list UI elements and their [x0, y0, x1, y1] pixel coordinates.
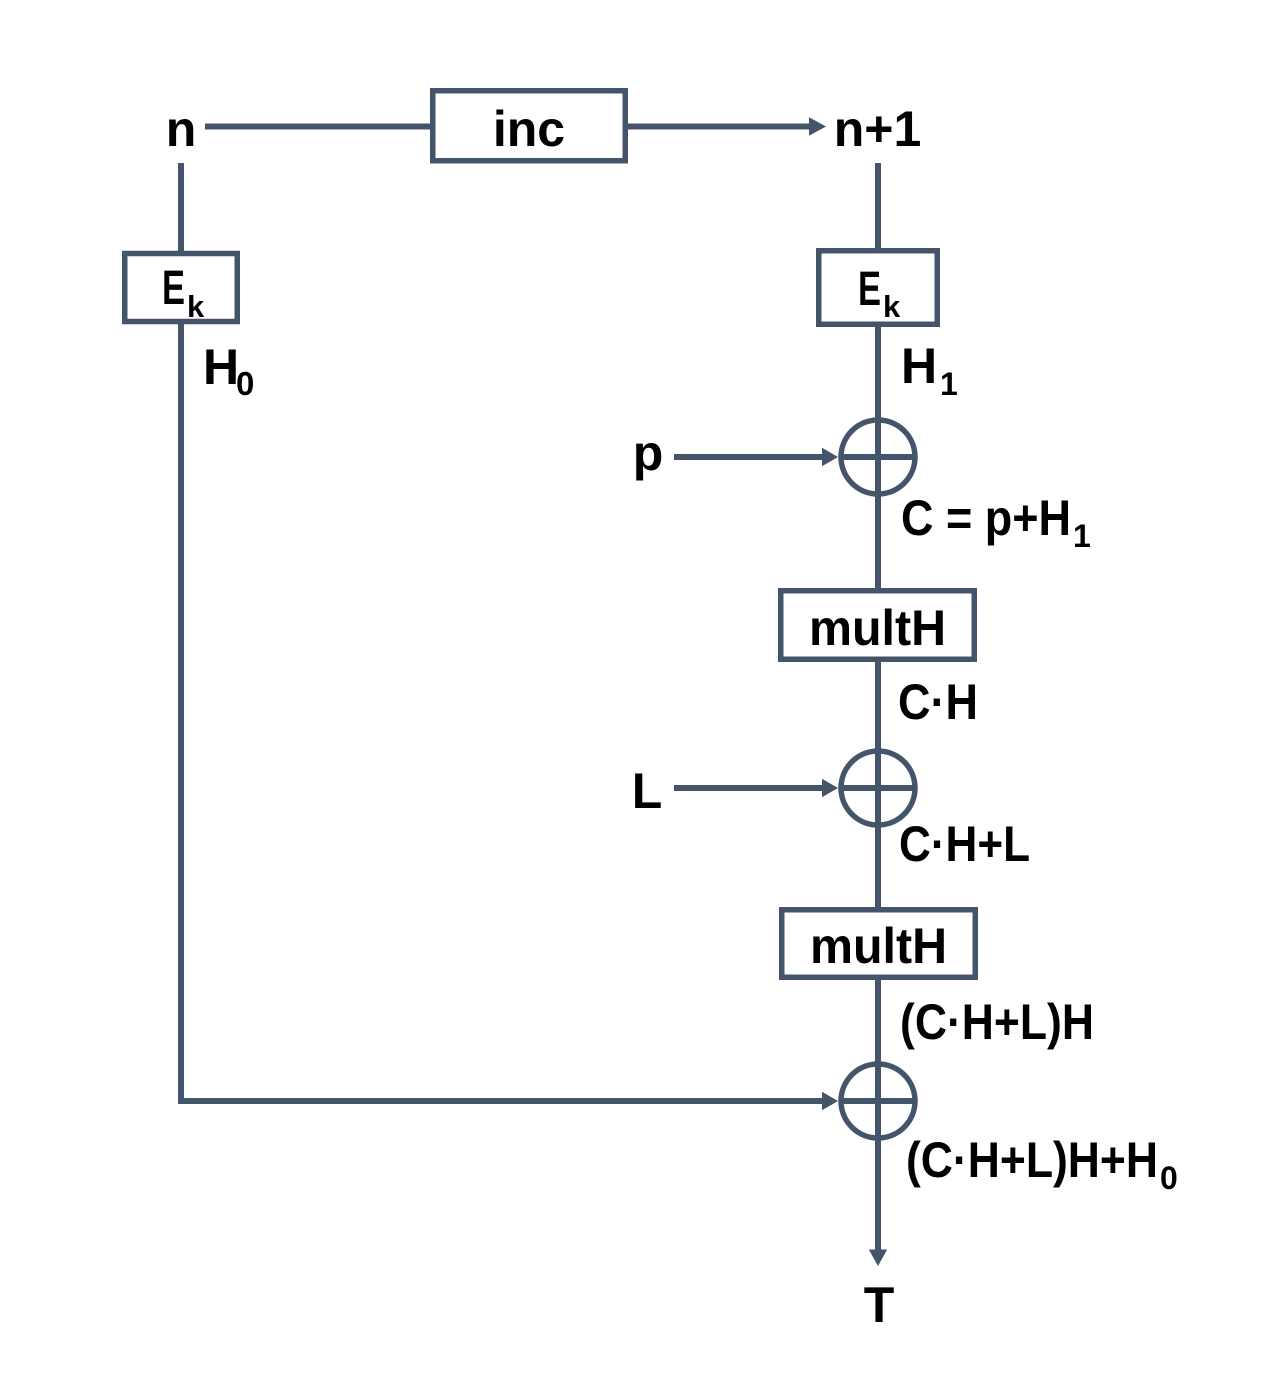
svg-text:E: E [858, 263, 881, 316]
svg-text:1: 1 [1073, 518, 1091, 554]
svg-text:T: T [864, 1277, 895, 1333]
svg-text:p: p [633, 425, 664, 481]
wire multH 1 to multH 2 through xor2 [875, 659, 881, 910]
label H0 [203, 339, 254, 402]
svg-text:multH: multH [810, 918, 947, 974]
svg-text:k: k [187, 289, 205, 324]
block Ek left [125, 254, 238, 325]
svg-text:multH: multH [809, 600, 946, 656]
svg-text:0: 0 [236, 365, 254, 402]
svg-text:H: H [203, 339, 239, 395]
wire H0 to xor3 [178, 321, 838, 1110]
svg-text:L: L [632, 763, 663, 819]
svg-text:C = p+H: C = p+H [901, 490, 1071, 546]
wire n to inc [205, 124, 433, 130]
xor node 2 [841, 751, 915, 825]
block multH 1 [781, 591, 975, 660]
svg-text:1: 1 [940, 366, 958, 402]
svg-text:(C·H+L)H+H: (C·H+L)H+H [906, 1132, 1158, 1188]
wire inc to n+1 [625, 117, 826, 135]
wire Ek right to multH 1 through xor1 [875, 324, 881, 591]
svg-text:H: H [901, 338, 937, 394]
svg-text:E: E [162, 262, 185, 315]
label C = p+H1 [901, 490, 1091, 554]
wire n+1 to Ek right [875, 163, 881, 251]
block Ek right [819, 251, 938, 325]
wire n to Ek left [178, 163, 184, 254]
svg-text:C·H: C·H [898, 674, 978, 730]
wire p to xor1 [674, 448, 838, 466]
xor node 3 [841, 1064, 915, 1138]
svg-text:inc: inc [493, 101, 565, 157]
svg-text:C·H+L: C·H+L [899, 816, 1030, 872]
block inc [433, 91, 626, 161]
svg-text:k: k [883, 289, 901, 324]
xor node 1 [841, 420, 915, 494]
wire L to xor2 [674, 779, 838, 797]
svg-text:0: 0 [1160, 1160, 1178, 1196]
wire multH 2 to T arrow through xor3 [869, 977, 887, 1266]
svg-text:(C·H+L)H: (C·H+L)H [900, 994, 1094, 1050]
label H1 [901, 338, 958, 402]
svg-text:n+1: n+1 [834, 101, 922, 157]
label (C.H+L)H+H0 [906, 1132, 1178, 1196]
svg-text:n: n [166, 101, 197, 157]
block multH 2 [782, 910, 976, 978]
